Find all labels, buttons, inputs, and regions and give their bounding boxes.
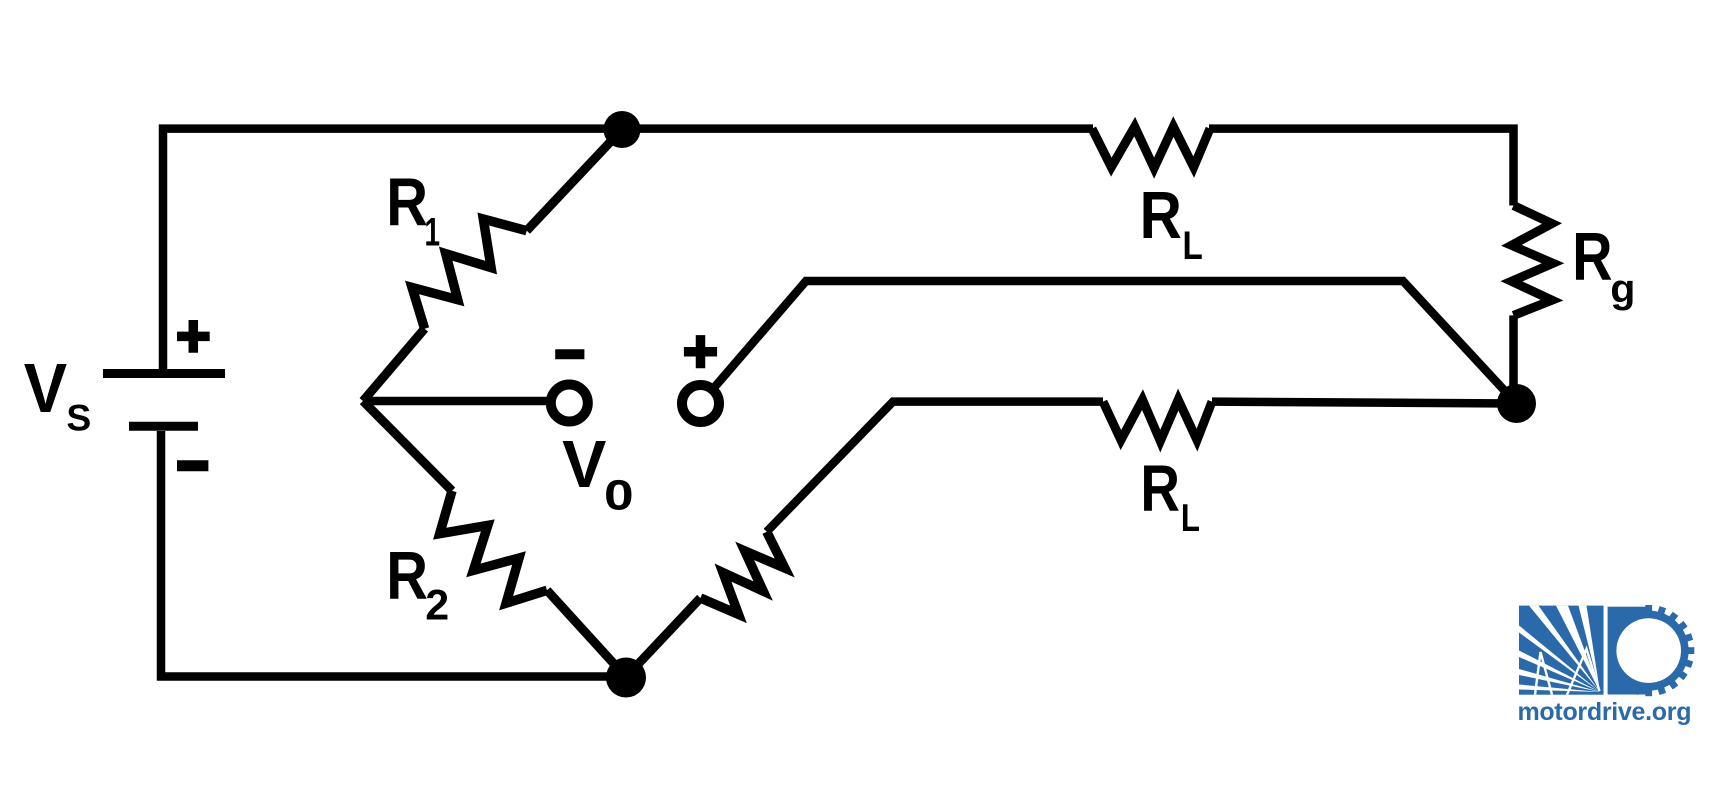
resistor R3 (unlabeled bridge arm)	[700, 532, 784, 615]
logo D gear	[1608, 605, 1695, 696]
logo M block with rays	[1519, 606, 1604, 695]
battery VS bottom plate	[129, 422, 198, 431]
wire plus terminal to upper branch	[715, 281, 1516, 404]
svg-text:R: R	[386, 164, 428, 239]
resistor RL (bottom)	[1103, 400, 1212, 442]
resistor Rg	[1512, 206, 1554, 316]
terminal plus sign	[684, 335, 717, 368]
battery minus sign	[177, 460, 208, 471]
svg-text:R: R	[1140, 178, 1182, 252]
svg-text:L: L	[1181, 497, 1200, 540]
resistor R2 lead to bottom node	[547, 590, 626, 677]
wire battery minus down and bottom wire	[161, 431, 626, 677]
node bottom junction	[606, 658, 646, 698]
resistor R3 lead from bottom node	[626, 598, 700, 677]
svg-text:R: R	[1572, 219, 1612, 294]
svg-text:R: R	[1140, 451, 1180, 525]
svg-text:motordrive.org: motordrive.org	[1518, 698, 1692, 726]
resistor R2 lead from left node	[363, 401, 452, 491]
node top junction	[604, 111, 641, 148]
battery VS top plate	[103, 369, 225, 378]
wire battery plus up and top wire left segment	[163, 129, 1093, 369]
resistor RL (top)	[1092, 127, 1210, 169]
svg-text:R: R	[386, 538, 428, 613]
terminal minus sign	[555, 349, 584, 359]
svg-text:2: 2	[425, 582, 449, 630]
label RL top	[1140, 178, 1203, 267]
terminal plus (open circle)	[682, 385, 719, 422]
svg-text:0: 0	[604, 471, 634, 519]
terminal minus (open circle)	[551, 385, 588, 422]
resistor R1	[412, 219, 527, 329]
wire R3 to lower RL	[767, 402, 1103, 532]
label V0	[562, 428, 634, 520]
label VS	[24, 350, 91, 439]
svg-text:L: L	[1183, 223, 1203, 268]
wire Rg to right node	[1509, 315, 1518, 403]
svg-text:S: S	[66, 397, 91, 439]
wire left node to minus terminal	[363, 397, 549, 406]
resistor R2	[440, 491, 547, 603]
wire top right segment and corner down to Rg	[1209, 129, 1514, 206]
label Rg	[1572, 219, 1635, 310]
label RL bottom	[1140, 451, 1200, 540]
label R1	[386, 164, 440, 254]
svg-text:g: g	[1610, 265, 1635, 310]
resistor R1 lead to left node	[363, 329, 425, 401]
logo motordrive.org	[1518, 605, 1695, 726]
battery plus sign	[177, 320, 210, 353]
label R2	[386, 538, 449, 630]
resistor R1 lead from top node	[527, 130, 622, 231]
node right junction	[1497, 384, 1536, 423]
wire lower RL to right node	[1212, 402, 1517, 404]
svg-text:V: V	[562, 428, 606, 502]
svg-text:1: 1	[425, 211, 441, 255]
svg-text:V: V	[24, 350, 67, 428]
